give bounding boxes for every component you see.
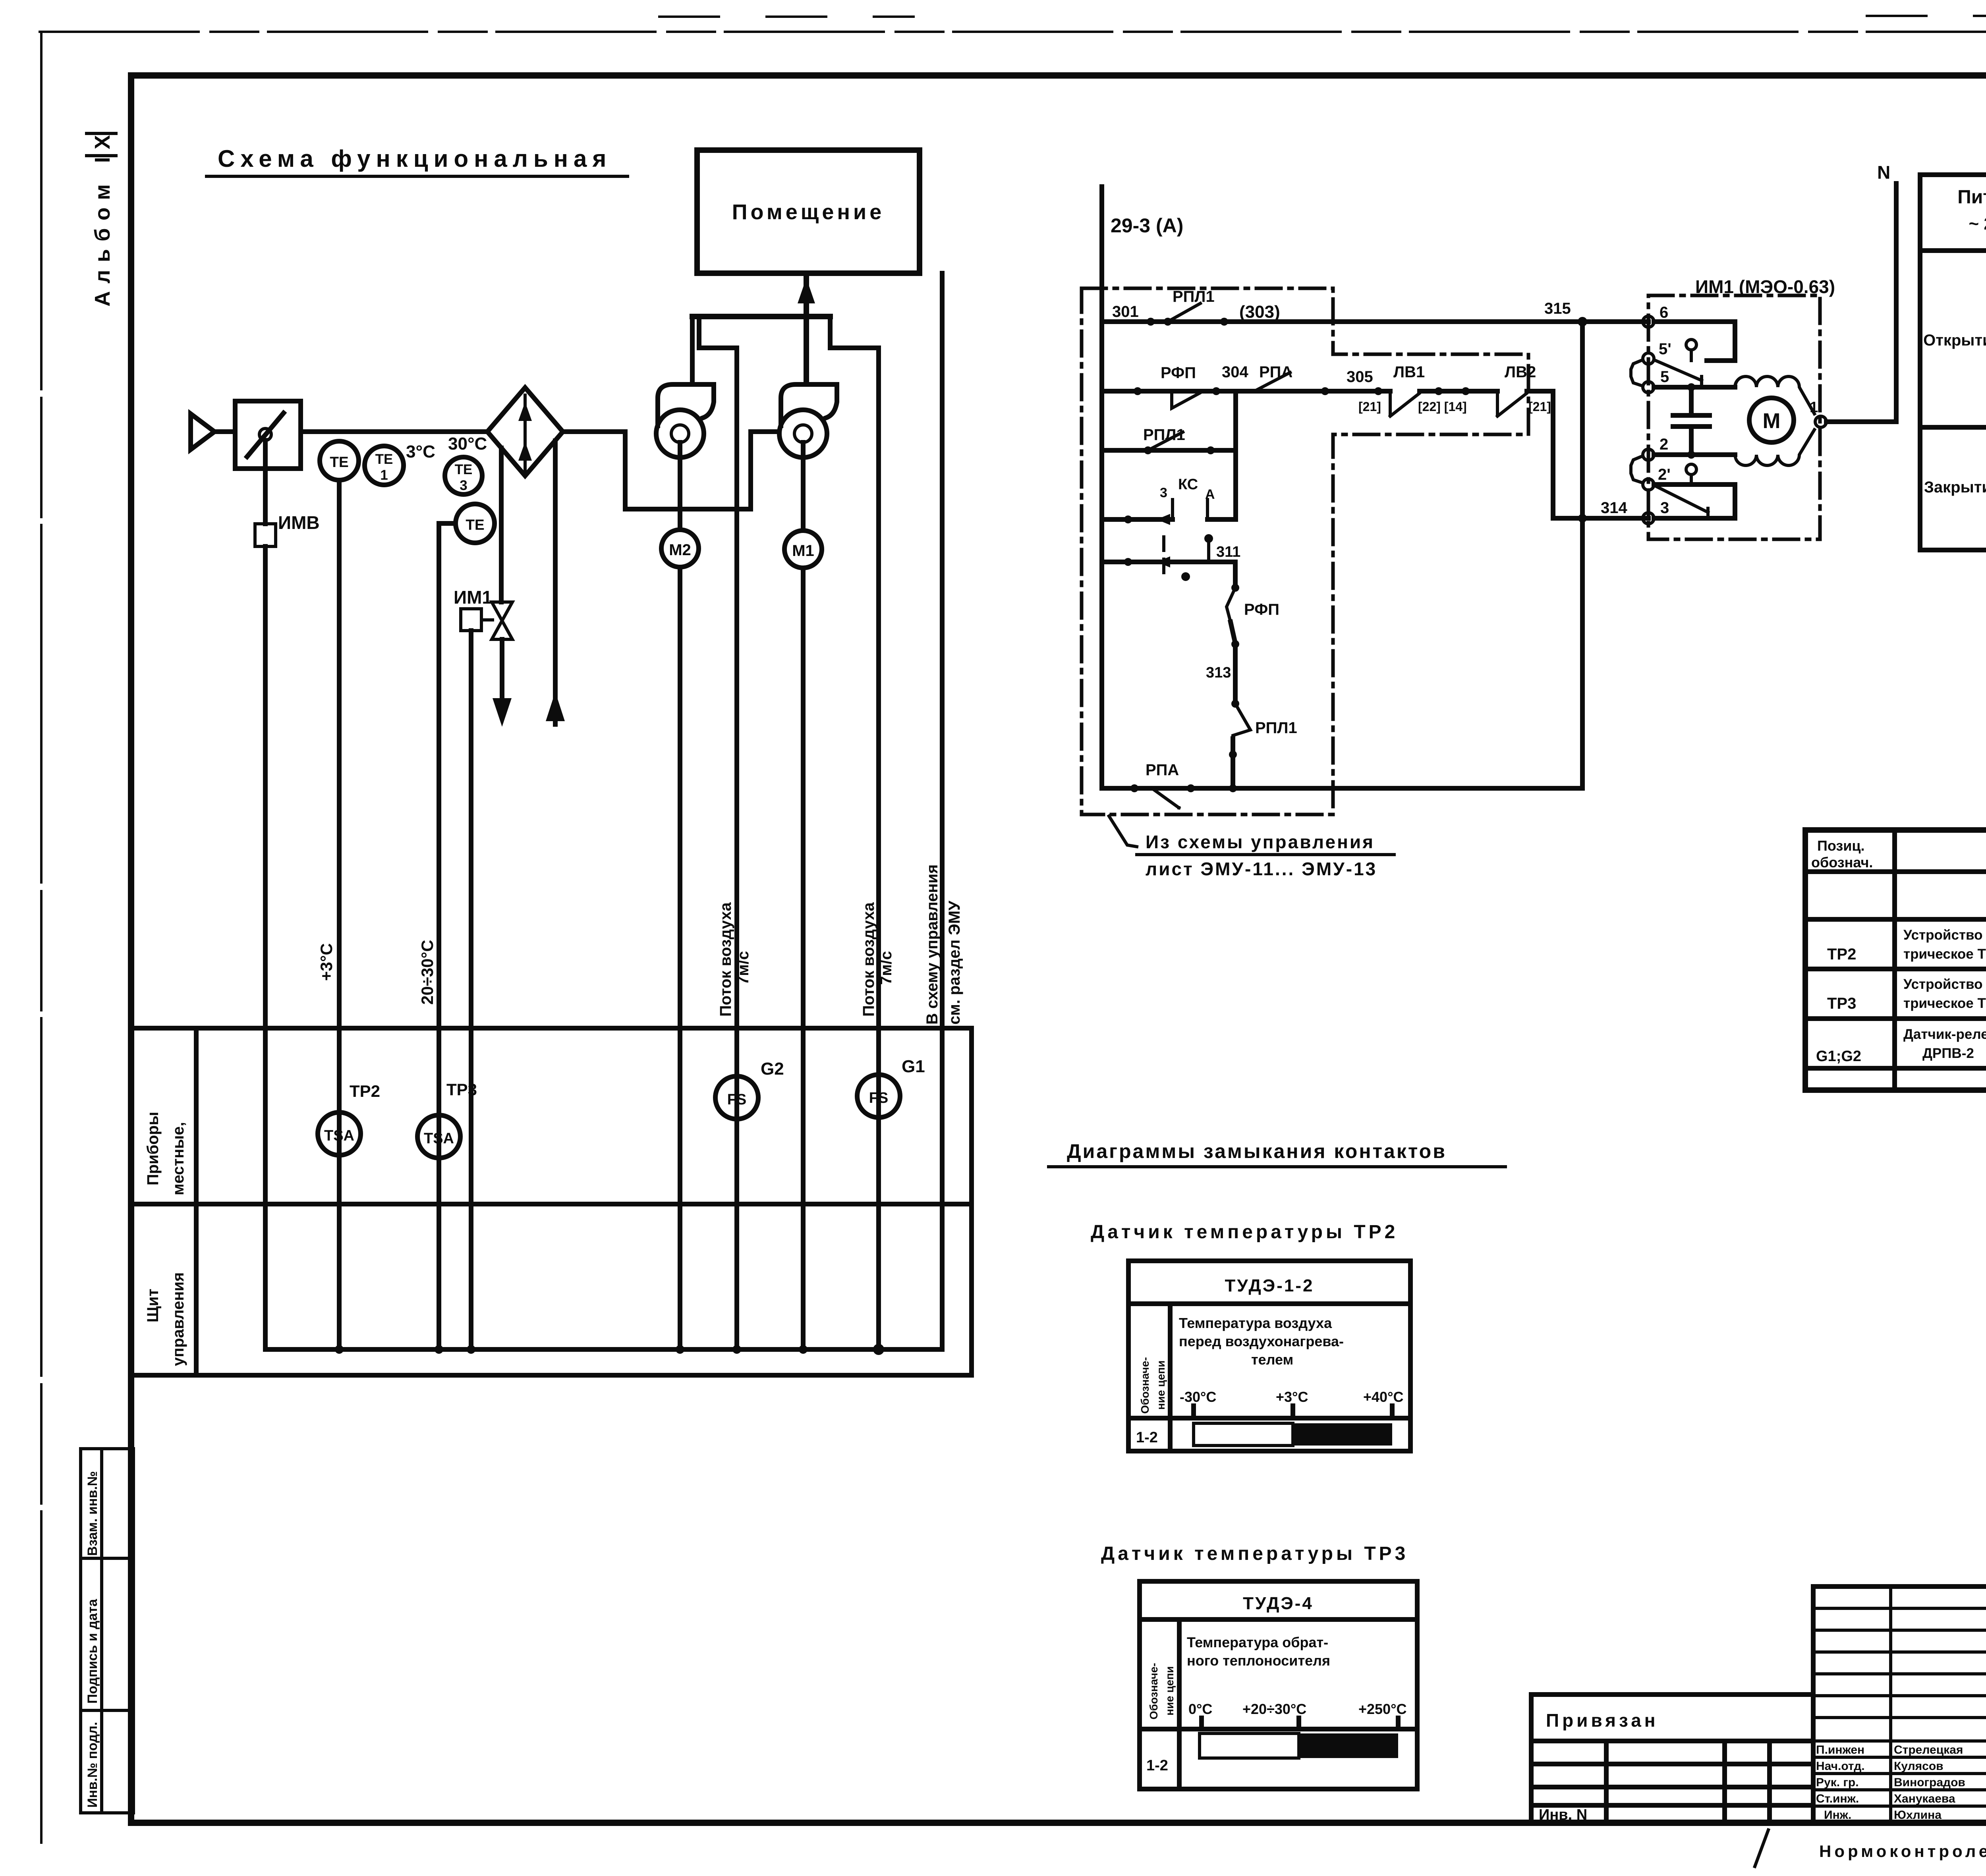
capacitor wire xyxy=(1689,387,1694,455)
stamp column: Взам. инв.№ box xyxy=(81,1449,102,1558)
scale ticks xyxy=(1194,1406,1392,1418)
room supply duct horizontal xyxy=(692,314,830,319)
fan M2 hub xyxy=(671,425,689,442)
wire rung3 xyxy=(1102,448,1236,453)
junction vertical rung2-rung4 xyxy=(1233,391,1238,519)
svg-text:РПА: РПА xyxy=(1146,761,1179,779)
svg-text:Ст.инж.: Ст.инж. xyxy=(1816,1792,1859,1805)
cam lamp lower xyxy=(1686,464,1696,475)
svg-text:1: 1 xyxy=(380,467,388,483)
svg-text:30°С: 30°С xyxy=(448,434,487,454)
svg-text:ТУДЭ-4: ТУДЭ-4 xyxy=(1243,1594,1314,1613)
stamp column: Инв.№ подл. box xyxy=(81,1710,102,1813)
duct heater to fan manifold xyxy=(563,429,625,434)
svg-text:РПА: РПА xyxy=(1259,363,1292,381)
svg-text:Инв.№ подл.: Инв.№ подл. xyxy=(85,1722,100,1808)
svg-text:ТР3: ТР3 xyxy=(446,1080,477,1099)
connector bracket 2-2' xyxy=(1631,456,1643,483)
svg-text:управления: управления xyxy=(170,1272,187,1366)
album IX underline xyxy=(87,154,116,157)
motor M1 circle xyxy=(784,531,822,568)
damper pivot circle xyxy=(259,428,271,440)
svg-text:3°С: 3°С xyxy=(406,442,435,461)
heater diamond xyxy=(487,388,563,476)
motor M circle xyxy=(1749,398,1794,442)
contact ЛВ2 xyxy=(1497,391,1527,416)
connector КС prongs xyxy=(1173,500,1207,519)
svg-text:лист ЭМУ-11... ЭМУ-13: лист ЭМУ-11... ЭМУ-13 xyxy=(1146,859,1377,879)
svg-text:М2: М2 xyxy=(669,541,691,559)
sensor TE3 circle xyxy=(445,457,482,494)
svg-text:305: 305 xyxy=(1347,368,1373,386)
terminal 5 xyxy=(1643,382,1654,393)
svg-text:Датчик температуры ТР2: Датчик температуры ТР2 xyxy=(1091,1222,1398,1243)
svg-text:29-3 (А): 29-3 (А) xyxy=(1111,214,1183,237)
svg-text:+3°С: +3°С xyxy=(1276,1389,1308,1405)
svg-text:РПЛ1: РПЛ1 xyxy=(1173,288,1215,305)
damper blade xyxy=(247,413,284,457)
svg-text:20÷30°С: 20÷30°С xyxy=(418,940,437,1005)
wire ИМ1 to valve xyxy=(481,618,493,621)
svg-text:обознач.: обознач. xyxy=(1811,854,1873,870)
svg-text:Открытие: Открытие xyxy=(1923,332,1986,349)
wire M2 down to bus xyxy=(678,567,682,1349)
terminal 2 xyxy=(1643,449,1654,460)
svg-text:304: 304 xyxy=(1222,363,1248,381)
closure bar closed xyxy=(1293,1423,1392,1446)
svg-text:Обозначе-: Обозначе- xyxy=(1139,1357,1151,1414)
album IX overline xyxy=(87,132,116,135)
rail wire bottom xyxy=(1102,786,1582,791)
terminal 3 xyxy=(1643,513,1654,524)
svg-text:Датчик температуры ТР3: Датчик температуры ТР3 xyxy=(1101,1543,1408,1564)
svg-text:G2: G2 xyxy=(761,1059,784,1079)
heat pipe supply (right) xyxy=(553,441,558,724)
wire TE4 to left xyxy=(439,521,456,526)
svg-text:1: 1 xyxy=(1810,399,1818,416)
svg-text:315: 315 xyxy=(1544,300,1571,317)
svg-text:7м/с: 7м/с xyxy=(877,951,895,985)
svg-text:Поток воздуха: Поток воздуха xyxy=(717,902,734,1017)
svg-text:Взам. инв.№: Взам. инв.№ xyxy=(85,1471,100,1556)
svg-text:0°С: 0°С xyxy=(1188,1701,1212,1717)
top edge scan dashes xyxy=(659,16,1986,17)
contact РПЛ1 rung3 xyxy=(1148,432,1183,450)
svg-text:М1: М1 xyxy=(792,542,814,560)
terminal 2' xyxy=(1643,479,1654,490)
wire ИМ1 down to bus xyxy=(469,631,473,1349)
fan M1 hub xyxy=(794,425,812,442)
svg-text:ние цепи: ние цепи xyxy=(1163,1666,1176,1716)
G2 stub wire xyxy=(699,318,737,348)
stamp column: Подпись и дата box xyxy=(81,1558,102,1710)
svg-text:Ханукаева: Ханукаева xyxy=(1894,1792,1955,1805)
wire rung5 311 xyxy=(1102,560,1235,564)
border outer top xyxy=(40,31,1986,33)
fan M2 volute xyxy=(656,410,704,457)
svg-text:ТЕ: ТЕ xyxy=(330,454,348,470)
dash-dot box ИМ1 xyxy=(1648,295,1820,539)
svg-text:местные,: местные, xyxy=(170,1122,187,1195)
wire rung5 corner down xyxy=(1233,562,1238,588)
svg-text:313: 313 xyxy=(1206,664,1231,681)
Привязан table xyxy=(1531,1695,1813,1823)
wire to ЭМУ section xyxy=(940,273,945,1349)
heat pipe return (left) xyxy=(499,448,504,602)
svg-text:FS: FS xyxy=(727,1091,747,1108)
svg-text:[21]: [21] xyxy=(1528,400,1551,414)
wire rung2 xyxy=(1102,389,1390,394)
svg-text:G1: G1 xyxy=(902,1057,925,1076)
svg-text:Юхлина: Юхлина xyxy=(1894,1808,1942,1822)
damper box xyxy=(235,401,301,469)
motor M2 circle xyxy=(661,530,699,567)
sensor TSA TP3 xyxy=(417,1115,460,1158)
svg-text:Виноградов: Виноградов xyxy=(1894,1776,1965,1789)
actuator ИМВ square xyxy=(255,524,276,546)
terminal 6 xyxy=(1643,316,1654,327)
bus junction dots xyxy=(335,1345,344,1354)
svg-text:Щит: Щит xyxy=(144,1289,162,1322)
svg-text:[21]: [21] xyxy=(1358,400,1381,414)
wire M1 motor xyxy=(801,442,806,531)
svg-text:телем: телем xyxy=(1251,1351,1293,1368)
contact РФП rung2 xyxy=(1172,391,1200,408)
wire 313 vertical xyxy=(1233,644,1238,704)
svg-text:РПЛ1: РПЛ1 xyxy=(1143,426,1185,444)
svg-text:+3°С: +3°С xyxy=(317,943,336,981)
svg-text:3: 3 xyxy=(1160,485,1167,500)
sensor TE1 circle xyxy=(365,446,404,485)
svg-text:ИМ1: ИМ1 xyxy=(454,587,492,608)
svg-text:Закрытие: Закрытие xyxy=(1924,479,1986,496)
riser arrow xyxy=(798,278,815,303)
wire TE4 down to TSA TP3 xyxy=(437,523,441,1349)
svg-text:(303): (303) xyxy=(1239,302,1280,322)
svg-text:314: 314 xyxy=(1601,499,1627,517)
svg-text:Помещение: Помещение xyxy=(732,200,885,224)
motor winding upper xyxy=(1735,376,1814,414)
svg-text:N: N xyxy=(1877,162,1890,183)
svg-text:[22] [14]: [22] [14] xyxy=(1418,400,1467,414)
svg-text:Схема функциональная: Схема функциональная xyxy=(218,145,612,172)
wire terminal 5 xyxy=(1654,385,1735,390)
svg-text:1-2: 1-2 xyxy=(1146,1757,1168,1774)
terminal 1 xyxy=(1815,416,1826,427)
contact РПЛ1 vertical xyxy=(1233,704,1250,739)
closure bar open xyxy=(1194,1423,1293,1446)
svg-text:3: 3 xyxy=(460,478,467,493)
wire 314 corner xyxy=(1553,391,1648,518)
svg-text:~ 220В: ~ 220В xyxy=(1969,214,1986,234)
wire 301/315 rung xyxy=(1102,319,1648,324)
bus 29-3 vertical wire xyxy=(1099,187,1104,788)
wire loop terminal 6 xyxy=(1654,322,1735,361)
svg-text:В схему управления: В схему управления xyxy=(923,865,941,1025)
svg-text:+40°С: +40°С xyxy=(1363,1389,1403,1405)
svg-text:Позиц.: Позиц. xyxy=(1817,838,1865,854)
leader line xyxy=(1109,816,1137,847)
wire motor to N xyxy=(1826,419,1896,424)
wire 315 to rail vertical xyxy=(1580,322,1585,788)
supply pipe arrow up xyxy=(546,692,565,721)
svg-text:+20÷30°С: +20÷30°С xyxy=(1242,1701,1306,1717)
box ТУДЭ-1-2 xyxy=(1128,1261,1410,1451)
svg-text:-30°С: -30°С xyxy=(1180,1389,1216,1405)
cam lamp upper xyxy=(1686,340,1696,350)
G1 stub wire xyxy=(830,317,879,348)
return pipe arrow down xyxy=(493,698,512,727)
svg-text:301: 301 xyxy=(1112,303,1139,320)
closure bar closed xyxy=(1299,1733,1398,1758)
wire ИМВ down to bus xyxy=(263,546,268,1349)
svg-text:ИМВ: ИМВ xyxy=(278,512,320,533)
svg-text:Нач.отд.: Нач.отд. xyxy=(1816,1760,1865,1773)
svg-text:А: А xyxy=(1205,487,1215,502)
main title underline xyxy=(207,175,628,178)
actuator ИМ1 square xyxy=(461,609,481,631)
band: instruments local xyxy=(131,1028,972,1375)
motor winding lower xyxy=(1735,430,1814,465)
signature rows xyxy=(1816,1743,1986,1822)
svg-text:3: 3 xyxy=(1660,499,1669,517)
wire damper to ИМВ xyxy=(263,440,268,524)
svg-text:Обозначе-: Обозначе- xyxy=(1148,1663,1160,1720)
svg-text:G1;G2: G1;G2 xyxy=(1816,1048,1861,1065)
connector 311 prongs xyxy=(1162,537,1165,581)
duct wire damper to heater xyxy=(301,429,488,434)
border outer left xyxy=(40,32,43,1843)
terminal 5' xyxy=(1643,353,1654,364)
svg-text:Из схемы управления: Из схемы управления xyxy=(1146,832,1375,852)
svg-text:РФП: РФП xyxy=(1244,601,1279,618)
closure bar open xyxy=(1200,1733,1299,1758)
svg-text:Инв. N: Инв. N xyxy=(1539,1807,1587,1823)
svg-text:трическое ТУДЭ-4: трическое ТУДЭ-4 xyxy=(1903,996,1986,1011)
sensor TE circle xyxy=(320,441,359,480)
wire TE down to TSA xyxy=(337,480,342,1349)
svg-text:Подпись и дата: Подпись и дата xyxy=(85,1598,100,1704)
svg-text:FS: FS xyxy=(869,1090,889,1106)
svg-text:КС: КС xyxy=(1178,476,1198,493)
svg-text:ТЕ: ТЕ xyxy=(466,517,484,533)
fan M2 outlet riser xyxy=(690,317,695,384)
wire rung4 КС xyxy=(1102,517,1236,522)
fan M1 volute xyxy=(779,410,827,457)
contact РПЛ1 rung1 xyxy=(1168,303,1200,322)
duct wire intake to damper xyxy=(214,429,235,434)
room riser xyxy=(804,273,809,384)
svg-text:Устройство терморегулирующее: Устройство терморегулирующее элек- xyxy=(1903,927,1986,943)
svg-text:ЛВ2: ЛВ2 xyxy=(1505,363,1536,381)
room box Помещение xyxy=(697,150,920,273)
svg-text:7м/с: 7м/с xyxy=(734,951,752,985)
svg-text:Поток воздуха: Поток воздуха xyxy=(860,902,877,1017)
air intake triangle xyxy=(191,414,214,450)
svg-text:TSA: TSA xyxy=(324,1127,354,1144)
signature table grid xyxy=(1813,1586,1986,1823)
svg-text:Стрелецкая: Стрелецкая xyxy=(1894,1743,1963,1756)
svg-text:ДРПВ-2: ДРПВ-2 xyxy=(1922,1046,1974,1061)
svg-text:РФП: РФП xyxy=(1161,364,1196,382)
svg-text:Кулясов: Кулясов xyxy=(1894,1760,1943,1773)
svg-text:ЛВ1: ЛВ1 xyxy=(1393,363,1425,381)
switch blade 2'-3 xyxy=(1654,485,1708,518)
wire G2 down xyxy=(734,348,739,1349)
inlet manifold wire xyxy=(625,432,779,509)
svg-text:ТР2: ТР2 xyxy=(1827,946,1856,963)
normcontrol line xyxy=(1755,1830,1768,1866)
wire M2 motor xyxy=(678,442,682,530)
svg-text:1-2: 1-2 xyxy=(1136,1429,1158,1446)
svg-text:6: 6 xyxy=(1660,304,1668,321)
valve ИМ1 bowtie xyxy=(492,602,512,621)
heater inner arrow line xyxy=(524,395,527,471)
svg-text:ТР3: ТР3 xyxy=(1827,995,1856,1012)
svg-text:М: М xyxy=(1763,409,1781,433)
svg-text:см. раздел ЭМУ: см. раздел ЭМУ xyxy=(946,900,963,1025)
contact РФП vertical xyxy=(1227,588,1235,622)
contact ЛВ1 xyxy=(1390,391,1420,416)
svg-text:Приборы: Приборы xyxy=(144,1112,162,1185)
svg-text:Датчик-реле потока воздуха: Датчик-реле потока воздуха xyxy=(1903,1027,1986,1042)
svg-text:311: 311 xyxy=(1216,544,1240,560)
power box Питание xyxy=(1920,175,1986,550)
svg-text:Инж.: Инж. xyxy=(1824,1808,1851,1822)
svg-text:ТУДЭ-1-2: ТУДЭ-1-2 xyxy=(1225,1276,1314,1295)
svg-text:Питание: Питание xyxy=(1957,187,1986,208)
contact РПА rail xyxy=(1152,788,1179,808)
svg-text:5: 5 xyxy=(1660,368,1669,386)
svg-text:РПЛ1: РПЛ1 xyxy=(1255,719,1297,737)
wire M1 down to bus xyxy=(801,568,806,1349)
svg-text:Температура воздуха: Температура воздуха xyxy=(1179,1315,1332,1331)
dash-dot enclosure panel xyxy=(1082,288,1528,814)
svg-text:ТР2: ТР2 xyxy=(350,1082,380,1100)
scale ticks xyxy=(1202,1718,1398,1729)
svg-text:П.инжен: П.инжен xyxy=(1816,1743,1864,1756)
svg-text:2: 2 xyxy=(1660,436,1668,453)
svg-text:ТЕ: ТЕ xyxy=(375,452,393,467)
capacitor plates xyxy=(1673,415,1710,427)
control panel bus wire xyxy=(265,1347,942,1352)
svg-text:трическое ТУДЭ-1-2: трическое ТУДЭ-1-2 xyxy=(1903,946,1986,962)
svg-text:Устройство терморегулирующее: Устройство терморегулирующее элек- xyxy=(1903,977,1986,992)
svg-text:5': 5' xyxy=(1659,340,1671,358)
sensor TE4 circle xyxy=(456,504,495,543)
wire loop terminal 2' xyxy=(1654,484,1735,518)
wire terminal 3 inner xyxy=(1654,516,1713,521)
svg-text:+250°С: +250°С xyxy=(1358,1701,1406,1717)
svg-text:ние цепи: ние цепи xyxy=(1155,1361,1167,1410)
sensor FS G1 xyxy=(857,1075,900,1117)
svg-text:ТЕ: ТЕ xyxy=(455,462,473,477)
box ТУДЭ-4 xyxy=(1140,1581,1417,1789)
wire G1 down xyxy=(876,348,881,1349)
svg-text:Рук. гр.: Рук. гр. xyxy=(1816,1776,1859,1789)
svg-text:перед воздухонагрева-: перед воздухонагрева- xyxy=(1179,1333,1344,1349)
svg-text:Привязан: Привязан xyxy=(1546,1710,1659,1731)
svg-text:Нормоконтролер: Нормоконтролер xyxy=(1819,1842,1986,1861)
svg-text:ного теплоносителя: ного теплоносителя xyxy=(1187,1652,1330,1669)
switch blade 5'-5 xyxy=(1654,360,1702,387)
svg-text:Температура обрат-: Температура обрат- xyxy=(1187,1634,1328,1650)
svg-text:Диаграммы замыкания контактов: Диаграммы замыкания контактов xyxy=(1067,1140,1447,1162)
sensor FS G2 xyxy=(715,1076,758,1119)
wire terminal 2 xyxy=(1654,452,1735,457)
contact РПА rung2 xyxy=(1254,372,1290,391)
sensor TSA TP2 xyxy=(318,1112,361,1155)
svg-text:TSA: TSA xyxy=(424,1130,454,1147)
wire N vertical xyxy=(1894,183,1899,422)
svg-text:Альбом IX: Альбом IX xyxy=(91,135,114,307)
connector bracket 5'-5 xyxy=(1631,360,1643,386)
svg-text:2': 2' xyxy=(1658,466,1671,483)
